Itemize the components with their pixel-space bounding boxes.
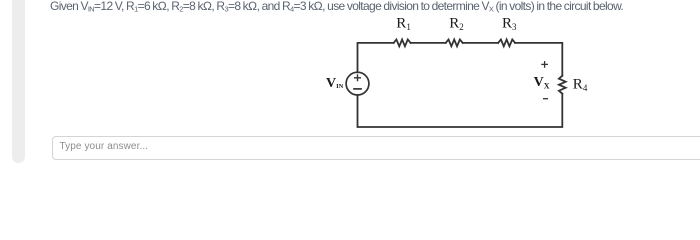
- wire: between R2 and R3: [463, 42, 498, 44]
- svg-text:R4: R4: [573, 76, 588, 92]
- svg-text:R1: R1: [396, 16, 411, 32]
- answer input box: [52, 136, 700, 160]
- resistor R3: [498, 40, 515, 47]
- Vx minus sign: [544, 98, 548, 100]
- svg-text:R2: R2: [449, 16, 464, 32]
- wire: R4 to bottom-right corner to bottom-left: [358, 94, 563, 127]
- wire: R3 to top-right corner down to R4: [515, 43, 562, 76]
- question text: [50, 0, 700, 13]
- Vx plus sign: [542, 62, 547, 67]
- voltage source minus sign: [354, 88, 361, 90]
- svg-text:VIN: VIN: [326, 76, 344, 91]
- circuit schematic svg: [0, 0, 700, 172]
- resistor R4 (vertical): [559, 76, 566, 94]
- svg-text:VX: VX: [534, 75, 550, 91]
- voltage source plus sign: [355, 75, 361, 81]
- scrollbar thumb: [12, 0, 25, 163]
- resistor R2: [446, 40, 463, 47]
- wire: between R1 and R2: [411, 42, 446, 44]
- wire: top-left segment from corner to R1: [358, 43, 394, 72]
- voltage source VIN circle: [346, 72, 369, 95]
- resistor R1: [394, 40, 411, 47]
- svg-text:R3: R3: [502, 16, 517, 32]
